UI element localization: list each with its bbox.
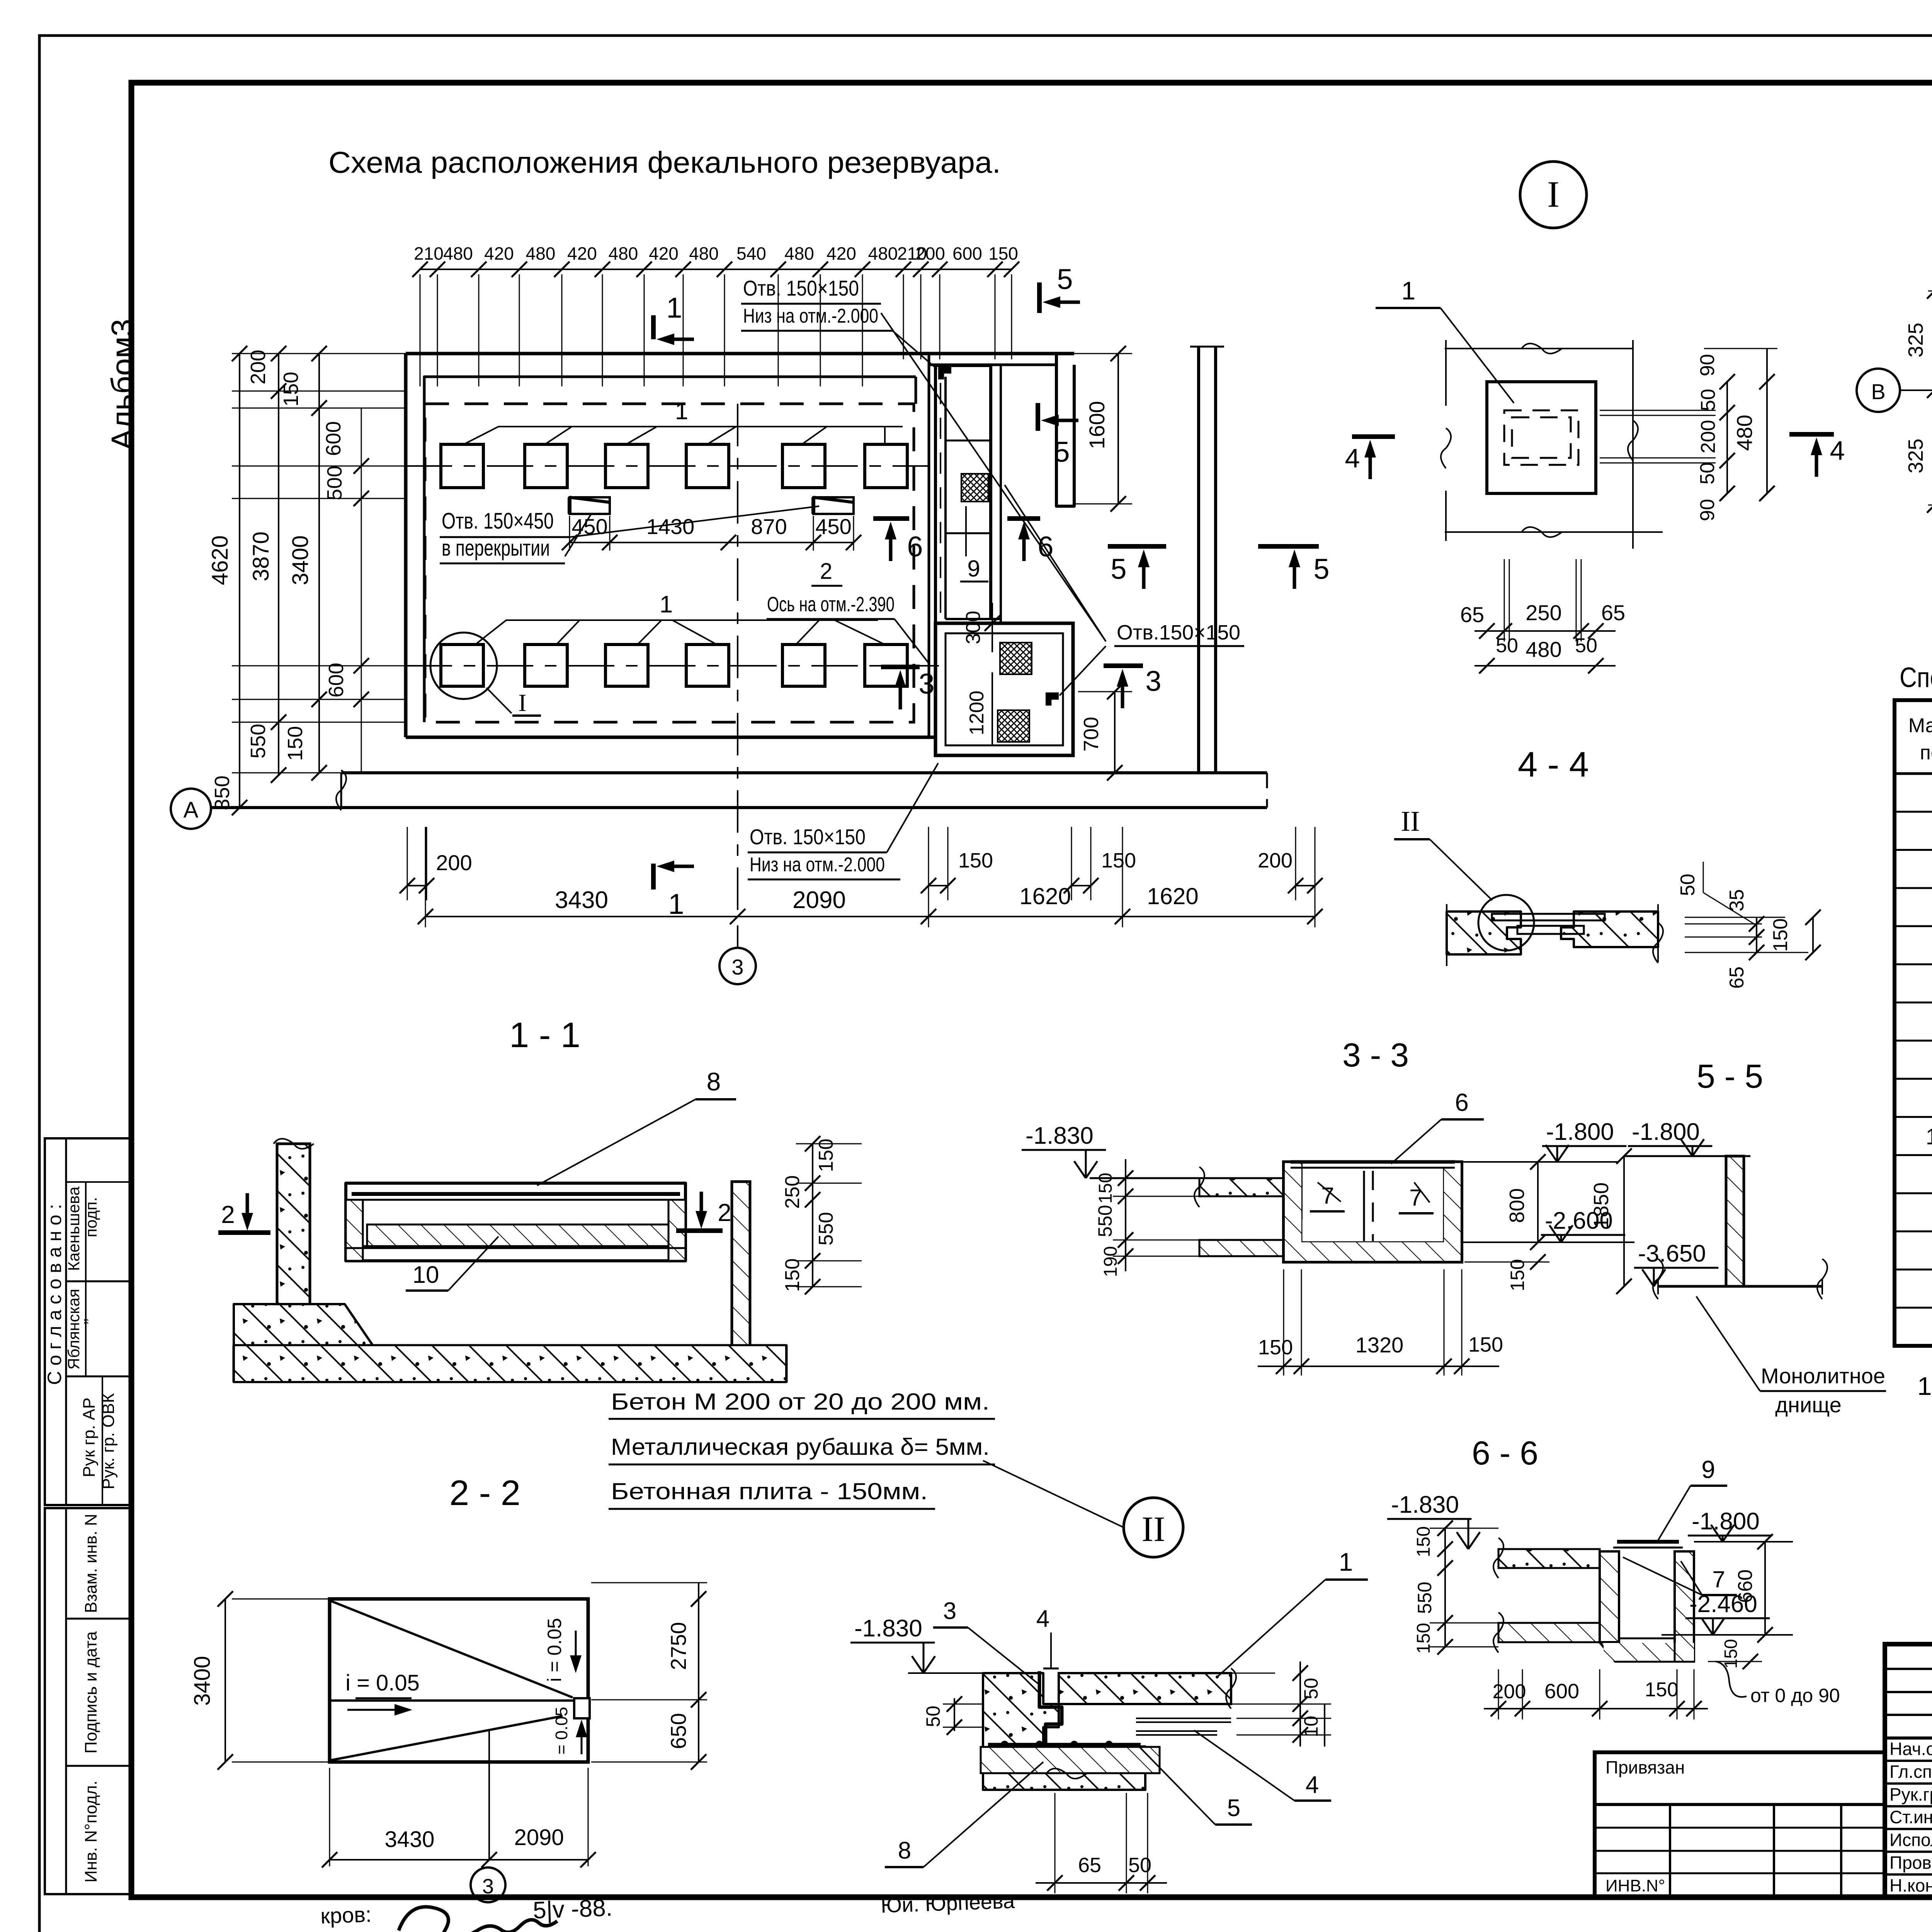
- svg-text:1. Отверстия 150×150 в пере: 1. Отверстия 150×150 в перекрытии канала…: [1917, 1372, 1932, 1400]
- svg-text:150: 150: [1101, 849, 1136, 872]
- svg-text:480: 480: [609, 243, 638, 264]
- svg-text:2090: 2090: [514, 1825, 564, 1850]
- detail I circle title: [1520, 162, 1587, 228]
- section marker 5 second: [1036, 403, 1040, 431]
- svg-text:480: 480: [1732, 415, 1757, 451]
- svg-text:190: 190: [1100, 1246, 1121, 1277]
- canal crosshatch square: [961, 474, 988, 502]
- svg-text:7: 7: [1409, 1185, 1422, 1211]
- svg-text:3430: 3430: [384, 1827, 434, 1852]
- svg-text:150: 150: [1645, 1679, 1679, 1701]
- svg-text:450: 450: [571, 514, 607, 539]
- svg-text:3 - 3: 3 - 3: [1342, 1037, 1409, 1074]
- 3-3 dim 150 bottom: [1530, 1254, 1546, 1270]
- 6-6 channel top slab: [1498, 1549, 1600, 1568]
- lower row hatch squares: [441, 645, 483, 686]
- section marker 5 up left: [1108, 544, 1166, 549]
- svg-text:5: 5: [1111, 553, 1126, 585]
- 6-6 tank left wall: [1600, 1551, 1619, 1642]
- dim 1600 right: [1117, 354, 1119, 504]
- svg-text:480: 480: [689, 243, 719, 264]
- circle detail I on first square: [430, 633, 497, 699]
- svg-text:Исполн.: Исполн.: [1889, 1830, 1932, 1850]
- 3-3 tank walls: [1284, 1162, 1301, 1219]
- svg-text:2: 2: [221, 1201, 235, 1228]
- 3-3 bottom dims 150 1320 150: [1283, 1269, 1284, 1376]
- svg-text:6: 6: [1037, 531, 1053, 563]
- svg-text:660: 660: [1734, 1570, 1757, 1603]
- II top slab to right: [1059, 1673, 1231, 1704]
- svg-text:Марка: Марка: [1908, 714, 1932, 737]
- svg-text:150: 150: [279, 372, 303, 406]
- spec table outer box: [1895, 700, 1932, 1346]
- detail I dashed inner squares: [1504, 410, 1578, 465]
- svg-text:800: 800: [1505, 1188, 1529, 1223]
- upper row hatch squares: [441, 444, 483, 488]
- svg-text:5: 5: [1313, 553, 1329, 585]
- svg-text:9: 9: [1701, 1456, 1715, 1483]
- svg-text:1430: 1430: [646, 514, 695, 539]
- svg-text:Альбом3: Альбом3: [105, 319, 140, 450]
- svg-text:1: 1: [1401, 276, 1416, 305]
- plan outer wall left: [404, 354, 408, 737]
- svg-text:3: 3: [943, 1598, 956, 1624]
- svg-text:550: 550: [1094, 1205, 1116, 1237]
- 2-2 dim right 2750 650: [591, 1582, 707, 1583]
- svg-text:II: II: [1401, 806, 1420, 837]
- axis circle 3 below 2-2: [471, 1867, 505, 1902]
- 2-2 dim 3400 left: [232, 1599, 332, 1600]
- svg-text:-1.800: -1.800: [1546, 1119, 1614, 1145]
- 3-3 channel top slab: [1199, 1178, 1284, 1196]
- detail I bottom dims 65 250 65: [1475, 630, 1616, 632]
- svg-text:10: 10: [1926, 1124, 1932, 1150]
- FOM-1 left dim 325/325: [1928, 291, 1932, 292]
- svg-text:150: 150: [1721, 1639, 1741, 1669]
- svg-text:Н.контр.: Н.контр.: [1889, 1875, 1932, 1895]
- svg-text:650: 650: [666, 1713, 690, 1749]
- svg-text:3: 3: [731, 955, 743, 979]
- svg-text:4: 4: [1830, 435, 1845, 466]
- svg-text:480: 480: [868, 243, 898, 264]
- 1-1 right dim stack: [812, 1144, 813, 1287]
- lower row centreline: [406, 665, 939, 667]
- svg-text:Инв. N°подл.: Инв. N°подл.: [82, 1781, 100, 1883]
- section marker 5 up right: [1258, 544, 1319, 549]
- tank crosshatch squares: [1000, 643, 1032, 674]
- svg-text:5 - 5: 5 - 5: [1697, 1058, 1763, 1095]
- svg-text:50: 50: [1496, 634, 1518, 657]
- II left dim 50: [954, 1698, 955, 1731]
- svg-text:550: 550: [247, 724, 270, 759]
- svg-text:550: 550: [815, 1212, 837, 1246]
- 1-1 foundation slab: [234, 1304, 373, 1345]
- svg-text:подп.: подп.: [82, 1197, 100, 1237]
- detail II circle: [1124, 1498, 1183, 1557]
- dim 450 1430 870 450: [569, 516, 570, 551]
- svg-text:65: 65: [1460, 602, 1484, 627]
- section marker 5 top: [1037, 282, 1042, 313]
- tank inner rectangle: [946, 633, 1063, 745]
- svg-text:5|v -88.: 5|v -88.: [532, 1895, 613, 1924]
- svg-text:420: 420: [567, 243, 597, 264]
- svg-text:3: 3: [482, 1875, 494, 1898]
- svg-text:600: 600: [952, 243, 982, 264]
- svg-text:i = 0.05: i = 0.05: [345, 1670, 420, 1696]
- svg-text:2750: 2750: [666, 1622, 690, 1670]
- svg-text:150: 150: [284, 726, 307, 761]
- 6-6 tank bottom slab: [1600, 1642, 1694, 1662]
- 1-1 tank body: [346, 1183, 685, 1261]
- detail I extension lines: [1445, 348, 1633, 349]
- svg-text:кров:: кров:: [320, 1902, 372, 1928]
- II metal frame: [1039, 1671, 1062, 1743]
- svg-text:А: А: [184, 798, 199, 823]
- 2-2 plan rectangle: [330, 1599, 588, 1762]
- svg-text:1850: 1850: [1590, 1182, 1613, 1229]
- 1-1 left wall hatched: [277, 1144, 310, 1342]
- svg-text:3: 3: [1145, 665, 1161, 697]
- svg-text:1620: 1620: [1019, 883, 1071, 909]
- 4-4 right dims: [1685, 917, 1785, 918]
- svg-text:1320: 1320: [1355, 1333, 1404, 1357]
- upper row centreline: [406, 465, 929, 467]
- plan bottom dimension line: [425, 827, 426, 927]
- svg-text:1600: 1600: [1085, 401, 1109, 449]
- svg-text:50: 50: [1300, 1678, 1322, 1699]
- 6-6 bottom dims 200 600 150: [1498, 1669, 1499, 1719]
- svg-text:150: 150: [1258, 1336, 1293, 1359]
- svg-text:600: 600: [1544, 1680, 1579, 1703]
- svg-text:1200: 1200: [966, 690, 988, 735]
- II right dims: [1182, 1673, 1275, 1674]
- detail I bottom extension lines: [1504, 559, 1505, 641]
- 2-2 bottom dims 3430 2090: [329, 1768, 330, 1866]
- 1-1 side wall hatch: [346, 1200, 363, 1261]
- opening 150x450 left: [570, 497, 610, 514]
- section marker 1 bottom: [651, 864, 656, 889]
- svg-text:200: 200: [915, 243, 945, 264]
- svg-text:4: 4: [1036, 1605, 1049, 1632]
- II plate thin lines: [1136, 1718, 1231, 1719]
- 3-3 cover plate: [1291, 1160, 1455, 1164]
- 6-6 left dims: [1444, 1527, 1446, 1647]
- svg-text:250: 250: [781, 1175, 804, 1209]
- svg-text:Юи. Юрпеева: Юи. Юрпеева: [880, 1889, 1015, 1917]
- svg-text:700: 700: [1080, 717, 1103, 752]
- svg-text:600: 600: [325, 663, 348, 697]
- svg-text:Отв. 150×150: Отв. 150×150: [750, 825, 866, 849]
- svg-text:300: 300: [962, 611, 985, 645]
- axis circle А: [171, 789, 211, 829]
- 1-1 tank bottom strip hatched: [367, 1225, 670, 1246]
- corner opening marks: [938, 366, 951, 379]
- svg-text:540: 540: [736, 243, 766, 264]
- svg-text:480: 480: [526, 243, 556, 264]
- canal dashes: [940, 383, 941, 623]
- svg-text:5: 5: [1054, 436, 1070, 468]
- svg-text:2 - 2: 2 - 2: [449, 1473, 520, 1513]
- 3-3 dim 800: [1537, 1162, 1539, 1242]
- svg-text:6 - 6: 6 - 6: [1472, 1435, 1538, 1472]
- svg-text:Привязан: Привязан: [1605, 1757, 1685, 1777]
- section marker 3 right up: [1104, 663, 1143, 668]
- 4-4 left hatched block: [1447, 912, 1521, 954]
- left margin lower box: [45, 1508, 131, 1894]
- svg-text:Подпись и дата: Подпись и дата: [82, 1631, 100, 1753]
- svg-text:50: 50: [1697, 389, 1719, 411]
- svg-text:-3.650: -3.650: [1638, 1240, 1706, 1267]
- svg-text:4 - 4: 4 - 4: [1518, 745, 1589, 784]
- svg-text:3430: 3430: [555, 887, 608, 913]
- privyazan box: [1595, 1752, 1885, 1897]
- II bottom dims 65 50: [1054, 1793, 1056, 1893]
- plan bottom small dims: [407, 827, 408, 900]
- svg-text:Низ на отм.-2.000: Низ на отм.-2.000: [750, 854, 885, 876]
- canal vertical walls: [934, 366, 937, 755]
- svg-text:200: 200: [1493, 1680, 1526, 1703]
- 5-5 base slab line: [1658, 1285, 1822, 1288]
- svg-text:325: 325: [1904, 323, 1927, 357]
- 4-4 side extension lines: [1446, 904, 1447, 966]
- svg-text:3: 3: [918, 668, 934, 700]
- 4-4 right hatched block: [1561, 912, 1658, 947]
- svg-text:350: 350: [211, 776, 234, 810]
- plan left dimension lines: [232, 353, 406, 354]
- svg-text:150: 150: [1468, 1333, 1503, 1356]
- 5-5 wall stem: [1726, 1156, 1744, 1286]
- svg-text:90: 90: [1696, 499, 1719, 521]
- svg-text:I: I: [518, 689, 526, 716]
- spec table row lines: [1895, 811, 1932, 813]
- detail I bottom dim 480: [1475, 665, 1616, 667]
- svg-text:С о г л а с о в а н о :: С о г л а с о в а н о :: [44, 1204, 65, 1385]
- svg-text:Бетонная плита - 150мм.: Бетонная плита - 150мм.: [611, 1478, 928, 1504]
- axis circle 3 below plan: [737, 925, 738, 947]
- svg-text:480: 480: [784, 243, 814, 264]
- svg-text:50: 50: [922, 1706, 944, 1727]
- 6-6 tank right wall: [1675, 1551, 1694, 1662]
- svg-text:450: 450: [815, 514, 851, 539]
- svg-text:2090: 2090: [793, 887, 846, 913]
- svg-text:2: 2: [718, 1199, 731, 1226]
- svg-text:10: 10: [413, 1262, 439, 1288]
- svg-text:-1.830: -1.830: [1391, 1492, 1459, 1518]
- detail I cut marker 4 right: [1789, 432, 1834, 437]
- 1-1 cut marker 2 left: [246, 1193, 249, 1213]
- svg-text:Отв. 150×150: Отв. 150×150: [743, 276, 859, 300]
- 6-6 cover plate: [1617, 1540, 1679, 1544]
- svg-text:Рук.гр.: Рук.гр.: [1889, 1784, 1932, 1804]
- 3-3 left dims: [1125, 1159, 1126, 1271]
- svg-text:1: 1: [668, 888, 684, 920]
- detail I right dim stack: [1726, 382, 1728, 493]
- free-standing wall right: [1197, 347, 1200, 773]
- svg-text:1: 1: [660, 591, 673, 618]
- II reinforcement bar: [988, 1743, 1141, 1747]
- svg-text:65: 65: [1078, 1854, 1101, 1877]
- svg-text:500: 500: [323, 466, 346, 500]
- svg-text:от 0 до 90: от 0 до 90: [1750, 1685, 1840, 1706]
- svg-text:6: 6: [1455, 1088, 1469, 1116]
- svg-text:I: I: [1547, 173, 1560, 215]
- 3-3 wall hatch: [1285, 1163, 1301, 1261]
- svg-text:Рук гр. АР: Рук гр. АР: [80, 1398, 99, 1478]
- section marker 1 top: [651, 315, 656, 339]
- svg-text:150: 150: [958, 849, 993, 872]
- svg-text:50: 50: [1677, 874, 1699, 896]
- foundation band bottom of plan: [341, 771, 1267, 774]
- svg-text:8: 8: [898, 1837, 911, 1864]
- svg-text:-1.830: -1.830: [854, 1615, 922, 1642]
- section marker 6 left up: [873, 516, 909, 521]
- svg-text:Спецификация к схеме расположе: Спецификация к схеме расположения фекаль…: [1900, 662, 1932, 693]
- svg-text:480: 480: [443, 243, 473, 264]
- svg-text:200: 200: [1697, 420, 1719, 454]
- axis circle В: [1857, 369, 1900, 412]
- 5-5 dim 1850: [1623, 1156, 1625, 1286]
- svg-text:50: 50: [1575, 634, 1597, 657]
- svg-text:200: 200: [436, 850, 472, 875]
- svg-text:Ст.инж.: Ст.инж.: [1889, 1807, 1932, 1827]
- 2-2 diagonals: [330, 1600, 573, 1697]
- svg-text:Провер.: Провер.: [1889, 1852, 1932, 1872]
- svg-text:Отв.150×150: Отв.150×150: [1117, 621, 1240, 644]
- svg-text:870: 870: [751, 514, 787, 539]
- svg-text:Отв. 150×450: Отв. 150×450: [442, 509, 554, 534]
- plan wall right return: [928, 354, 930, 377]
- section marker 3 left up: [881, 665, 920, 669]
- spec table header row: [1895, 772, 1932, 775]
- svg-text:Схема расположения фекального: Схема расположения фекального резервуара…: [328, 145, 1001, 179]
- upper row leader 1: [464, 427, 903, 444]
- svg-text:35: 35: [1726, 889, 1748, 912]
- svg-text:480: 480: [1526, 637, 1561, 662]
- 3-3 partition dashed: [1363, 1171, 1365, 1241]
- 6-6 channel bottom slab: [1498, 1623, 1600, 1642]
- plan outer wall top: [406, 352, 1074, 355]
- svg-text:-1.800: -1.800: [1632, 1119, 1700, 1145]
- II concrete block: [983, 1673, 1145, 1790]
- 2-2 outlet square: [574, 1698, 590, 1718]
- 1-1 cut marker 2 right: [700, 1192, 703, 1211]
- svg-text:150: 150: [1413, 1526, 1434, 1557]
- svg-text:420: 420: [827, 243, 856, 264]
- svg-text:1: 1: [666, 292, 682, 324]
- plan top dimension chain: [420, 269, 1012, 270]
- svg-text:Бетон М 200 от 20 до 200 мм.: Бетон М 200 от 20 до 200 мм.: [611, 1389, 990, 1415]
- left margin approval box: [45, 1138, 131, 1505]
- 1-1 tank inner: [363, 1200, 670, 1246]
- svg-text:90: 90: [1696, 354, 1719, 376]
- svg-text:5: 5: [1057, 263, 1073, 295]
- svg-text:7: 7: [1712, 1566, 1725, 1592]
- svg-text:4: 4: [1345, 443, 1360, 473]
- svg-text:420: 420: [484, 243, 514, 264]
- opening 150x450 right: [813, 497, 854, 514]
- svg-text:325: 325: [1904, 439, 1927, 473]
- 3-3 channel bottom slab: [1199, 1240, 1284, 1256]
- svg-text:в перекрытии: в перекрытии: [442, 536, 550, 561]
- svg-text:10: 10: [1300, 1716, 1322, 1737]
- svg-text:550: 550: [1414, 1582, 1435, 1614]
- svg-text:днище: днище: [1775, 1393, 1841, 1417]
- section marker 6 right up: [1007, 516, 1040, 521]
- svg-text:200: 200: [1258, 849, 1293, 872]
- svg-text:поз.: поз.: [1920, 742, 1932, 764]
- svg-text:В: В: [1871, 379, 1885, 404]
- svg-text:Металлическая рубашка δ= 5мм.: Металлическая рубашка δ= 5мм.: [611, 1434, 990, 1460]
- svg-text:i = 0.05: i = 0.05: [552, 1707, 571, 1763]
- svg-text:Нач.отд.: Нач.отд.: [1889, 1739, 1932, 1759]
- svg-text:5: 5: [1227, 1795, 1240, 1821]
- svg-text:Взам. инв. N: Взам. инв. N: [82, 1514, 100, 1613]
- svg-text:1 - 1: 1 - 1: [509, 1015, 580, 1055]
- svg-text:3400: 3400: [190, 1656, 215, 1706]
- Г-shaped wall right of plan: [1056, 354, 1074, 506]
- svg-text:3400: 3400: [288, 535, 313, 585]
- svg-text:-1.800: -1.800: [1692, 1508, 1760, 1535]
- plan dashed pit outline: [425, 404, 914, 722]
- svg-text:II: II: [1141, 1509, 1165, 1549]
- svg-text:250: 250: [1526, 600, 1561, 625]
- 4-4 detail circle: [1478, 895, 1534, 951]
- svg-text:8: 8: [707, 1067, 721, 1096]
- 1-1 right wall hatched: [732, 1182, 750, 1345]
- partition axis dash-dot: [737, 404, 738, 917]
- svg-text:1: 1: [1339, 1548, 1353, 1576]
- svg-text:6: 6: [907, 531, 923, 563]
- svg-text:65: 65: [1726, 966, 1748, 989]
- svg-text:4620: 4620: [207, 535, 233, 585]
- svg-text:50: 50: [1696, 462, 1719, 485]
- svg-text:Низ на отм.-2.000: Низ на отм.-2.000: [743, 305, 878, 327]
- lower row leader 1: [475, 620, 878, 645]
- 4-4 cover plates: [1492, 914, 1605, 920]
- svg-text:4: 4: [1306, 1772, 1319, 1798]
- svg-text:420: 420: [649, 243, 679, 264]
- svg-text:3870: 3870: [248, 531, 274, 581]
- detail I right reference lines: [1600, 410, 1716, 411]
- svg-text:9: 9: [967, 556, 980, 582]
- svg-text:50: 50: [1128, 1854, 1151, 1877]
- svg-text:Ось на отм.-2.390: Ось на отм.-2.390: [767, 593, 895, 616]
- tank outer rectangle: [935, 623, 1073, 755]
- 6-6 right dims 660 150: [1764, 1542, 1766, 1635]
- svg-text:600: 600: [322, 421, 345, 456]
- svg-text:Гл.спец.: Гл.спец.: [1889, 1762, 1932, 1782]
- svg-text:200: 200: [247, 350, 270, 384]
- svg-text:-1.830: -1.830: [1026, 1122, 1094, 1149]
- svg-text:ИНВ.N°: ИНВ.N°: [1605, 1876, 1665, 1895]
- svg-text:Яблянская: Яблянская: [65, 1289, 83, 1369]
- title block outer box: [1885, 1644, 1932, 1897]
- svg-text:Монолитное: Монолитное: [1761, 1364, 1885, 1388]
- plan right wall inner: [928, 377, 930, 737]
- svg-text:1620: 1620: [1147, 883, 1198, 909]
- II bottom slab: [981, 1747, 1160, 1773]
- svg-text:2: 2: [820, 559, 832, 584]
- svg-text:210: 210: [414, 243, 444, 264]
- detail I cut marker 4 left: [1352, 434, 1395, 439]
- svg-text:150: 150: [1095, 1173, 1116, 1204]
- dim 700 right: [1114, 692, 1116, 773]
- detail I outer square: [1487, 382, 1596, 493]
- svg-text:150: 150: [988, 243, 1018, 264]
- svg-text:i = 0.05: i = 0.05: [544, 1618, 565, 1682]
- svg-text:150: 150: [1769, 918, 1792, 952]
- plan outer wall bottom: [406, 736, 935, 739]
